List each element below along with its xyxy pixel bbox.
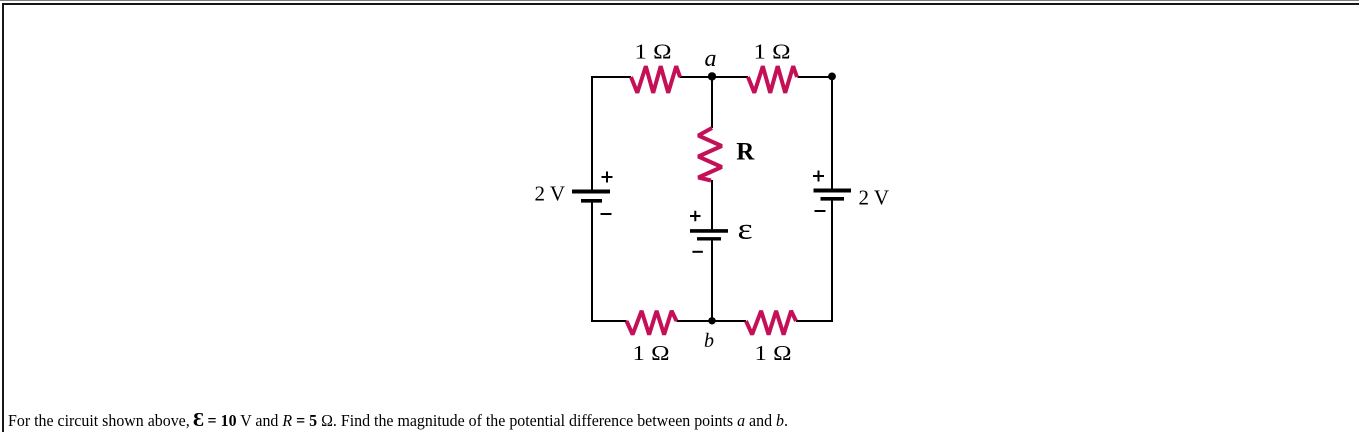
svg-text:1 Ω: 1 Ω — [754, 40, 791, 64]
svg-text:ε: ε — [738, 212, 753, 245]
svg-text:2 V: 2 V — [859, 186, 890, 210]
svg-text:R: R — [736, 139, 755, 166]
svg-text:b: b — [704, 330, 714, 352]
svg-text:2 V: 2 V — [534, 182, 565, 206]
svg-text:a: a — [705, 46, 717, 72]
svg-text:1 Ω: 1 Ω — [635, 40, 672, 64]
svg-text:1 Ω: 1 Ω — [633, 341, 670, 365]
svg-text:1 Ω: 1 Ω — [755, 341, 792, 365]
